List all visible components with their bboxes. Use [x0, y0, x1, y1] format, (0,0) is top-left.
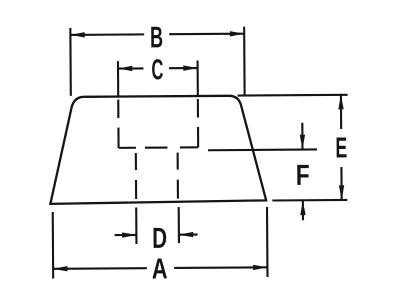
- dimension D line right stem: [179, 233, 198, 235]
- arrowhead E top (points up): [338, 95, 343, 109]
- dimension D extension line left: [135, 207, 137, 243]
- svg-text:D: D: [152, 222, 167, 254]
- dimension E line lower segment: [340, 167, 342, 200]
- dimension F top arrow stem: [301, 123, 303, 149]
- dimension C extension line right: [197, 61, 199, 96]
- bottom extension line (base extended right for E and F): [272, 199, 347, 202]
- arrowhead F top (points down): [300, 135, 305, 149]
- bumper body outline (trapezoid profile): [50, 96, 267, 204]
- dimension B extension line left: [69, 28, 72, 96]
- svg-text:C: C: [151, 55, 163, 87]
- hidden line: counterbore outer wall right (dashed): [197, 99, 199, 147]
- arrowhead B right: [230, 31, 244, 36]
- top extension line (top face extended right for E): [238, 94, 348, 97]
- arrowhead B left: [70, 32, 84, 37]
- arrowhead A left: [53, 266, 67, 271]
- arrowhead C left: [118, 66, 132, 71]
- hidden line: inner hole wall right (dashed): [177, 153, 179, 199]
- dimension E line upper segment: [340, 95, 342, 129]
- dimension A extension line left: [52, 212, 55, 278]
- arrowhead D left (points right): [122, 232, 136, 237]
- svg-text:A: A: [152, 254, 168, 286]
- dimension C extension line left: [117, 61, 119, 96]
- dimension F bottom arrow stem: [302, 201, 304, 220]
- arrowhead C right: [183, 65, 197, 70]
- step extension line (counterbore depth extended right for F): [208, 148, 317, 151]
- dimension A extension line right: [266, 207, 269, 277]
- dimension D extension line right: [178, 207, 180, 243]
- arrowhead A right: [253, 265, 267, 270]
- dimension B extension line right: [243, 27, 246, 96]
- dimension C line: [118, 67, 143, 69]
- hidden line: counterbore step (dashed horizontal): [119, 146, 198, 149]
- svg-text:B: B: [150, 22, 163, 55]
- dimension B line: [70, 33, 144, 36]
- arrowhead E bottom (points down): [339, 185, 344, 199]
- arrowhead D right (points left): [179, 232, 193, 237]
- svg-text:F: F: [296, 158, 310, 192]
- svg-text:E: E: [335, 132, 347, 165]
- arrowhead F bottom (points up): [300, 201, 305, 215]
- hidden line: counterbore outer wall left (dashed): [117, 100, 119, 148]
- hidden line: inner hole wall left (dashed): [135, 153, 137, 199]
- dimension A line: [53, 267, 147, 270]
- dimension D line left stem: [115, 234, 137, 236]
